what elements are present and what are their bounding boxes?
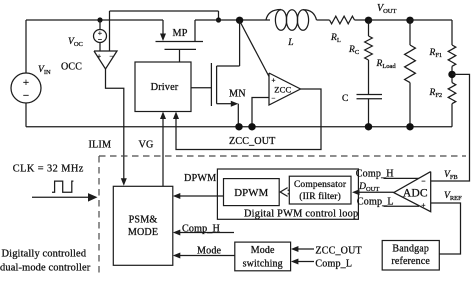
svg-text:CLK = 32 MHz: CLK = 32 MHz <box>13 164 84 175</box>
svg-text:ZCC_OUT: ZCC_OUT <box>229 136 275 147</box>
svg-text:(IIR filter): (IIR filter) <box>299 191 341 202</box>
svg-text:VG: VG <box>139 140 155 151</box>
svg-text:+: + <box>271 77 275 85</box>
svg-text:Comp_L: Comp_L <box>315 259 352 270</box>
svg-text:Digital PWM control loop: Digital PWM control loop <box>244 209 358 220</box>
svg-text:MP: MP <box>173 28 188 39</box>
svg-text:+: + <box>421 201 425 210</box>
svg-text:−: − <box>109 53 113 61</box>
svg-text:MN: MN <box>229 89 246 100</box>
svg-text:Mode: Mode <box>251 245 275 256</box>
svg-text:ADC: ADC <box>403 187 428 200</box>
svg-text:switching: switching <box>243 258 283 269</box>
svg-text:+: + <box>97 53 101 61</box>
svg-text:Compensator: Compensator <box>294 180 347 190</box>
svg-text:L: L <box>287 38 293 48</box>
svg-text:Mode: Mode <box>197 245 222 256</box>
svg-text:−: − <box>421 177 425 186</box>
svg-text:C: C <box>342 94 349 104</box>
svg-text:ZCC_OUT: ZCC_OUT <box>315 245 361 256</box>
svg-text:DPWM: DPWM <box>184 173 216 184</box>
svg-text:+: + <box>23 77 29 89</box>
svg-text:Comp_L: Comp_L <box>357 197 394 208</box>
svg-text:dual-mode controller: dual-mode controller <box>0 263 91 274</box>
svg-text:reference: reference <box>391 256 430 267</box>
svg-text:Comp_H: Comp_H <box>182 223 220 234</box>
svg-text:Comp_H: Comp_H <box>356 169 394 180</box>
svg-text:DPWM: DPWM <box>234 187 268 199</box>
svg-text:ZCC: ZCC <box>274 84 291 94</box>
svg-text:ILIM: ILIM <box>89 140 112 151</box>
svg-text:−: − <box>271 95 275 103</box>
svg-text:Digitally controlled: Digitally controlled <box>2 249 87 260</box>
svg-text:OCC: OCC <box>61 62 82 73</box>
svg-text:−: − <box>23 90 29 102</box>
svg-text:Driver: Driver <box>151 82 179 93</box>
svg-text:MODE: MODE <box>128 227 158 238</box>
svg-text:Bandgap: Bandgap <box>392 243 429 254</box>
svg-text:PSM&: PSM& <box>129 215 158 226</box>
